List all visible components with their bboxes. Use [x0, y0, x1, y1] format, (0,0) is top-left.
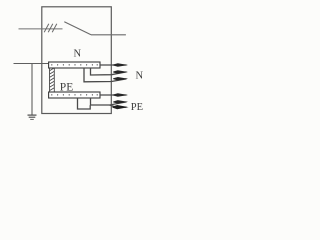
svg-text:PE: PE	[60, 81, 73, 93]
svg-text:N: N	[136, 70, 144, 81]
svg-text:N: N	[74, 48, 82, 59]
svg-text:PE: PE	[131, 102, 143, 113]
